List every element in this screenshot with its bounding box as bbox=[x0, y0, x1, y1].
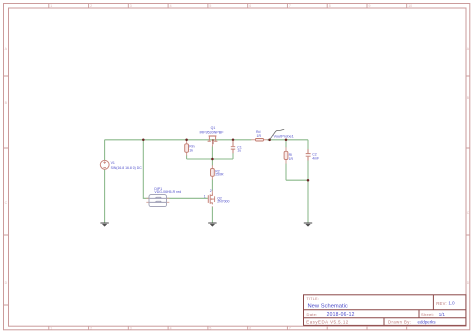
svg-text:1R: 1R bbox=[257, 134, 262, 138]
svg-text:V1: V1 bbox=[111, 161, 115, 165]
svg-text:VoutProbe1: VoutProbe1 bbox=[274, 134, 294, 139]
svg-text:4: 4 bbox=[170, 326, 172, 330]
svg-text:2N7000: 2N7000 bbox=[217, 200, 229, 204]
svg-text:6: 6 bbox=[249, 4, 251, 8]
svg-text:IRF9530NPBF: IRF9530NPBF bbox=[200, 130, 225, 134]
svg-text:2: 2 bbox=[90, 4, 92, 8]
svg-text:4: 4 bbox=[170, 4, 172, 8]
svg-text:1k: 1k bbox=[189, 149, 193, 153]
svg-text:10: 10 bbox=[408, 4, 412, 8]
svg-text:EasyEDA V5.5.12: EasyEDA V5.5.12 bbox=[306, 319, 348, 324]
svg-text:1: 1 bbox=[50, 4, 52, 8]
svg-text:9: 9 bbox=[369, 4, 371, 8]
svg-text:6: 6 bbox=[249, 326, 251, 330]
svg-text:3: 3 bbox=[130, 4, 132, 8]
svg-text:1.0: 1.0 bbox=[449, 301, 456, 306]
svg-text:eddperks: eddperks bbox=[418, 319, 437, 324]
svg-text:New Schematic: New Schematic bbox=[308, 303, 348, 309]
svg-text:Date:: Date: bbox=[307, 312, 318, 317]
svg-text:B: B bbox=[5, 101, 8, 105]
svg-text:Drawn By:: Drawn By: bbox=[388, 319, 411, 324]
svg-text:SIN(16.8 16.8 0) DC: SIN(16.8 16.8 0) DC bbox=[111, 166, 143, 170]
svg-text:5: 5 bbox=[209, 326, 211, 330]
svg-text:C: C bbox=[5, 201, 8, 205]
svg-text:2: 2 bbox=[210, 189, 212, 193]
svg-text:1: 1 bbox=[50, 326, 52, 330]
svg-text:5: 5 bbox=[209, 4, 211, 8]
svg-text:REV:: REV: bbox=[436, 301, 447, 306]
svg-text:3: 3 bbox=[130, 326, 132, 330]
svg-text:2018-06-12: 2018-06-12 bbox=[327, 312, 355, 318]
svg-text:2: 2 bbox=[90, 326, 92, 330]
svg-text:1: 1 bbox=[204, 195, 206, 199]
svg-text:8: 8 bbox=[329, 4, 331, 8]
svg-text:TITLE:: TITLE: bbox=[307, 297, 320, 301]
svg-text:VDG-06H5-R red: VDG-06H5-R red bbox=[154, 190, 181, 194]
svg-text:250R: 250R bbox=[215, 173, 224, 177]
svg-text:7: 7 bbox=[289, 4, 291, 8]
svg-text:4mF: 4mF bbox=[312, 156, 319, 160]
svg-text:D: D bbox=[5, 281, 8, 285]
svg-text:1R: 1R bbox=[289, 157, 294, 161]
svg-text:1/1: 1/1 bbox=[439, 312, 446, 317]
svg-text:7: 7 bbox=[289, 326, 291, 330]
svg-text:1u: 1u bbox=[237, 149, 241, 153]
svg-text:A: A bbox=[5, 47, 8, 51]
svg-text:Sheet:: Sheet: bbox=[421, 312, 434, 317]
